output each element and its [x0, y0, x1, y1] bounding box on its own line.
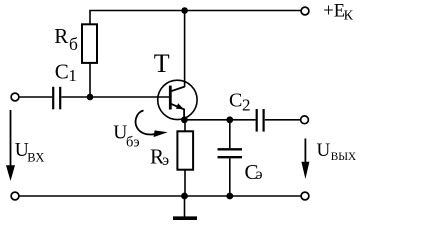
node ground junction — [181, 193, 188, 200]
wire Re bottom leg — [184, 170, 186, 196]
svg-text:б: б — [69, 34, 78, 54]
svg-text:э: э — [162, 152, 169, 169]
svg-text:R: R — [54, 24, 68, 48]
svg-text:1: 1 — [68, 66, 77, 85]
wire Ce bottom leg — [229, 158, 231, 196]
svg-text:ВХ: ВХ — [27, 150, 44, 164]
svg-text:+E: +E — [323, 2, 345, 22]
resistor Rb — [82, 24, 97, 63]
node collector-rail junction — [181, 7, 188, 14]
svg-text:бэ: бэ — [126, 134, 140, 150]
capacitor C1 — [53, 87, 60, 110]
svg-text:ВЫХ: ВЫХ — [331, 151, 356, 163]
node Ce bottom junction — [226, 193, 233, 200]
arrow Ube curved — [136, 111, 168, 138]
svg-text:T: T — [154, 49, 170, 78]
svg-text:2: 2 — [242, 96, 251, 115]
transistor T — [158, 80, 197, 120]
terminal +EK — [301, 7, 309, 15]
wire emitter to C2 — [184, 119, 255, 121]
resistor Re — [177, 131, 193, 169]
node emitter junction — [181, 116, 188, 123]
wire input to C1 — [19, 96, 52, 98]
ground — [173, 196, 197, 218]
terminal input bottom — [11, 192, 19, 200]
terminal output bottom — [301, 192, 309, 200]
wire top rail with corner above Rb — [90, 11, 301, 25]
wire Ce top leg — [229, 120, 231, 148]
svg-text:C: C — [55, 60, 69, 84]
capacitor C2 — [257, 109, 264, 132]
svg-text:U: U — [317, 140, 331, 161]
svg-text:э: э — [256, 166, 263, 183]
svg-text:C: C — [229, 89, 242, 111]
wire Re top leg — [184, 120, 186, 132]
capacitor Ce — [218, 149, 243, 157]
arrow Uvyx — [301, 139, 309, 180]
wire C2 to output — [265, 119, 301, 121]
wire Rb bottom leg — [89, 63, 91, 97]
terminal input top — [11, 93, 19, 101]
terminal output top — [301, 116, 309, 124]
svg-text:К: К — [344, 9, 354, 24]
arrow Uvx — [6, 110, 15, 181]
node Ce tap junction — [226, 116, 233, 123]
wire bottom rail — [19, 195, 301, 197]
wire C1 to base — [61, 96, 169, 98]
node base junction — [87, 94, 94, 101]
wire collector to rail — [184, 11, 186, 88]
